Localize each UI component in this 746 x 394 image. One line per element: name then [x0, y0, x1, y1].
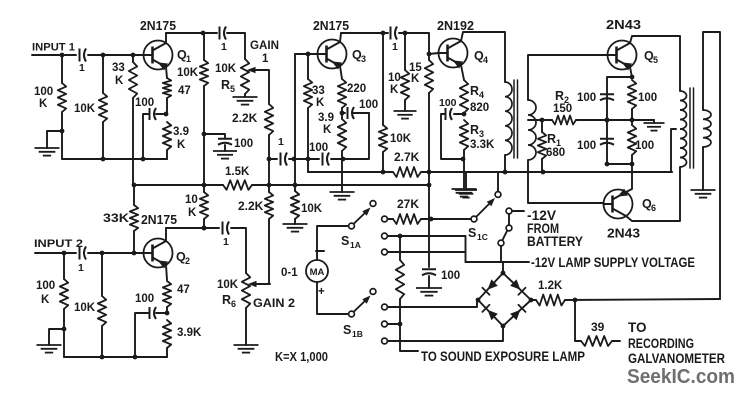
svg-text:1: 1: [262, 53, 269, 65]
svg-text:MA: MA: [310, 267, 325, 278]
svg-text:33: 33: [312, 85, 325, 97]
svg-text:K: K: [411, 73, 420, 85]
svg-text:3.9K: 3.9K: [177, 327, 202, 339]
svg-text:10K: 10K: [74, 302, 96, 314]
svg-text:100: 100: [441, 270, 460, 282]
svg-text:4: 4: [483, 55, 488, 65]
svg-text:3.9: 3.9: [173, 126, 189, 138]
svg-text:10: 10: [388, 72, 401, 84]
svg-text:1.5K: 1.5K: [225, 166, 250, 178]
svg-text:100: 100: [234, 138, 253, 150]
svg-text:100: 100: [135, 97, 154, 109]
svg-text:100: 100: [309, 142, 328, 154]
svg-text:5: 5: [653, 55, 658, 65]
svg-text:2.2K: 2.2K: [238, 199, 264, 213]
svg-text:S: S: [341, 234, 349, 248]
svg-text:1A: 1A: [350, 240, 361, 250]
svg-text:S: S: [468, 226, 476, 240]
svg-text:100: 100: [439, 97, 457, 109]
svg-text:3: 3: [479, 129, 484, 139]
svg-text:K: K: [41, 294, 50, 306]
svg-text:10K: 10K: [177, 67, 199, 79]
svg-text:100: 100: [359, 99, 378, 111]
svg-text:10: 10: [185, 194, 198, 206]
svg-text:R: R: [470, 84, 479, 98]
svg-text:RECORDING: RECORDING: [628, 336, 694, 351]
svg-text:33K: 33K: [103, 213, 130, 225]
svg-text:100: 100: [638, 92, 657, 104]
svg-text:10K: 10K: [74, 103, 96, 115]
svg-text:10K: 10K: [215, 63, 237, 75]
svg-text:10K: 10K: [301, 203, 323, 215]
svg-text:5: 5: [230, 84, 235, 94]
svg-text:1: 1: [223, 236, 229, 248]
svg-text:R: R: [547, 132, 556, 146]
svg-text:10K: 10K: [217, 279, 239, 291]
svg-text:33: 33: [112, 62, 125, 74]
svg-text:BATTERY: BATTERY: [527, 234, 583, 249]
svg-text:2N43: 2N43: [607, 227, 640, 241]
svg-text:4: 4: [479, 90, 484, 100]
svg-text:47: 47: [178, 85, 191, 97]
svg-text:S: S: [343, 323, 351, 337]
svg-text:1C: 1C: [477, 232, 488, 242]
svg-text:-12V LAMP SUPPLY VOLTAGE: -12V LAMP SUPPLY VOLTAGE: [531, 254, 695, 270]
svg-text:K: K: [115, 75, 124, 87]
svg-text:GAIN: GAIN: [250, 40, 279, 52]
svg-text:K: K: [323, 124, 332, 136]
svg-text:1: 1: [186, 54, 191, 64]
svg-text:150: 150: [553, 103, 572, 115]
svg-text:1: 1: [78, 262, 84, 274]
svg-text:6: 6: [651, 203, 656, 213]
svg-text:GALVANOMETER: GALVANOMETER: [628, 351, 725, 366]
svg-text:INPUT 1: INPUT 1: [32, 42, 75, 54]
svg-text:100: 100: [135, 293, 154, 305]
svg-text:47: 47: [177, 284, 190, 296]
svg-text:2N175: 2N175: [140, 19, 176, 33]
svg-text:1B: 1B: [352, 329, 363, 339]
svg-text:680: 680: [546, 147, 565, 159]
svg-text:820: 820: [470, 102, 489, 114]
svg-text:100: 100: [577, 140, 596, 152]
svg-text:100: 100: [635, 140, 654, 152]
svg-text:2N175: 2N175: [313, 19, 349, 33]
svg-text:1.2K: 1.2K: [538, 280, 563, 292]
svg-text:2N175: 2N175: [141, 213, 177, 227]
svg-text:K: K: [390, 84, 399, 96]
svg-text:3.3K: 3.3K: [470, 139, 495, 151]
svg-text:0-1: 0-1: [281, 267, 298, 279]
svg-text:R: R: [222, 293, 231, 307]
svg-text:K: K: [188, 207, 197, 219]
svg-text:100: 100: [577, 92, 596, 104]
svg-text:10K: 10K: [390, 133, 412, 145]
svg-text:39: 39: [591, 320, 605, 334]
svg-text:1: 1: [278, 136, 284, 148]
svg-text:TO SOUND EXPOSURE LAMP: TO SOUND EXPOSURE LAMP: [421, 348, 585, 364]
svg-text:2: 2: [185, 256, 190, 266]
svg-text:1: 1: [221, 41, 227, 53]
svg-text:220: 220: [347, 83, 366, 95]
svg-text:R: R: [555, 89, 564, 103]
svg-text:27K: 27K: [397, 197, 419, 211]
svg-text:K: K: [177, 139, 186, 151]
svg-text:100: 100: [34, 86, 53, 98]
svg-text:GAIN 2: GAIN 2: [253, 298, 295, 310]
svg-text:R: R: [470, 123, 479, 137]
svg-text:K: K: [39, 98, 48, 110]
svg-text:2.2K: 2.2K: [232, 111, 258, 125]
svg-text:2.7K: 2.7K: [394, 150, 420, 164]
svg-text:3: 3: [361, 54, 366, 64]
svg-text:3.9: 3.9: [318, 112, 334, 124]
svg-text:K=X 1,000: K=X 1,000: [275, 350, 328, 364]
svg-text:2N43: 2N43: [606, 18, 641, 32]
svg-text:100: 100: [36, 280, 55, 292]
svg-text:2N192: 2N192: [437, 19, 474, 33]
svg-text:6: 6: [231, 299, 236, 309]
svg-text:TO: TO: [628, 320, 647, 335]
svg-text:+: +: [318, 286, 325, 298]
svg-text:R: R: [221, 78, 230, 92]
svg-text:K: K: [316, 97, 325, 109]
svg-text:SeekIC.com: SeekIC.com: [627, 365, 735, 388]
svg-text:1: 1: [79, 62, 85, 74]
svg-text:1: 1: [392, 41, 398, 53]
svg-text:INPUT 2: INPUT 2: [34, 238, 83, 250]
